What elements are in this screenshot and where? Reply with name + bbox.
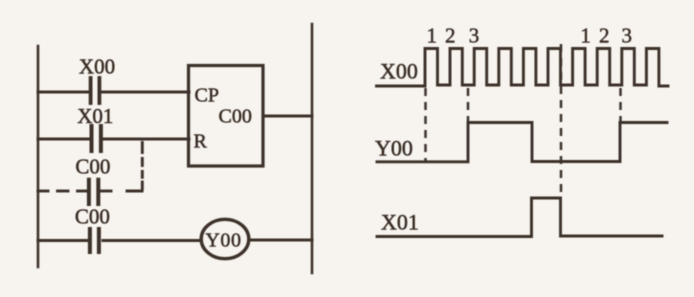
svg-text:Y00: Y00 xyxy=(205,230,241,252)
counter C00 block xyxy=(189,66,264,167)
svg-text:3: 3 xyxy=(621,24,632,48)
wire dashed vertical to rung2 xyxy=(141,143,144,190)
contact X00 xyxy=(91,78,100,103)
contact C00 (rung4) xyxy=(90,229,99,252)
dashed marker at second count 3 / Y00 second rise xyxy=(619,88,622,121)
contact X01 xyxy=(92,126,101,151)
wire rung 4 (C00 to Y00 coil) xyxy=(38,239,88,242)
output coil Y00 xyxy=(201,219,249,258)
wire rung 2 (X01 to R) xyxy=(38,138,89,141)
svg-text:1: 1 xyxy=(427,24,438,48)
wire rung 3 dashed (C00 seal-in) xyxy=(38,190,142,193)
svg-text:R: R xyxy=(194,131,208,153)
svg-text:CP: CP xyxy=(195,85,219,107)
wire coil to right rail xyxy=(249,239,312,242)
svg-text:X00: X00 xyxy=(79,55,115,79)
svg-text:2: 2 xyxy=(599,24,610,48)
svg-text:C00: C00 xyxy=(75,205,110,229)
waveform X00 pulse train xyxy=(377,49,669,87)
left power rail xyxy=(37,46,40,267)
right power rail xyxy=(311,24,314,273)
wire block output xyxy=(263,115,312,118)
contact C00 (rung3) xyxy=(89,180,98,204)
dashed marker at count 3 / Y00 first rise xyxy=(467,88,470,121)
svg-text:C00: C00 xyxy=(219,106,252,128)
svg-text:C00: C00 xyxy=(75,155,110,179)
dashed marker at pulse 1 xyxy=(424,88,427,161)
dashed marker at X01 reset xyxy=(560,44,563,196)
wire rung 1 (X00 to CP) xyxy=(38,91,89,94)
waveform Y00 xyxy=(377,123,667,162)
svg-text:2: 2 xyxy=(445,24,456,48)
svg-text:X01: X01 xyxy=(381,210,419,235)
waveform X01 xyxy=(377,198,662,237)
svg-text:3: 3 xyxy=(469,24,480,48)
svg-text:1: 1 xyxy=(580,24,591,48)
svg-text:X01: X01 xyxy=(77,104,113,128)
svg-text:Y00: Y00 xyxy=(375,136,413,161)
svg-text:X00: X00 xyxy=(380,59,418,84)
